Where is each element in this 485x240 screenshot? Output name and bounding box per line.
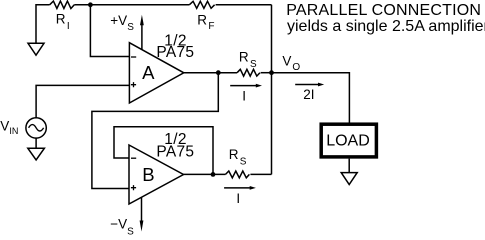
resistor RS lower	[226, 171, 250, 178]
op-amp B plus pin	[131, 185, 136, 190]
current arrow 2I line	[295, 84, 319, 86]
wire Vo vertical bus	[271, 5, 273, 175]
resistor RF	[189, 1, 214, 8]
op-amp A plus pin	[131, 82, 136, 87]
resistor RS upper	[237, 69, 260, 76]
svg-text:PA75: PA75	[156, 44, 194, 61]
supply +VS arrow line	[141, 25, 143, 50]
svg-text:I: I	[236, 191, 240, 206]
ground G3 below LOAD	[341, 173, 357, 185]
wire RS lower to Vo vertical	[250, 173, 271, 175]
op-amp B triangle	[129, 145, 184, 204]
svg-text:PARALLEL CONNECTION: PARALLEL CONNECTION	[286, 2, 481, 19]
current arrow I upper line	[230, 85, 257, 87]
wire node1 down to A inverting input	[90, 5, 129, 57]
junction B output node	[211, 172, 216, 177]
svg-text:B: B	[142, 164, 154, 185]
wire A output down-left to B plus input	[92, 73, 218, 189]
svg-text:PA75: PA75	[156, 143, 194, 160]
svg-text:A: A	[142, 62, 155, 83]
wire RI to RF	[74, 4, 189, 6]
supply -VS arrowhead	[140, 221, 144, 232]
current arrow I lower head	[250, 186, 256, 190]
op-amp A triangle	[129, 43, 183, 103]
wire RF to Vo vertical	[216, 4, 272, 6]
wire B output to RS lower	[184, 173, 226, 175]
svg-text:I: I	[242, 88, 246, 103]
wire Vo node to LOAD	[272, 73, 350, 125]
resistor RI	[50, 1, 75, 8]
svg-text:2I: 2I	[303, 87, 314, 102]
op-amp B minus pin	[131, 157, 136, 159]
wire VIN to ground	[35, 138, 37, 148]
current arrow I upper head	[256, 84, 262, 88]
wire B feedback loop output to inverting input	[114, 127, 213, 175]
wire VIN to A non-inverting input	[36, 85, 129, 117]
wire RS upper to Vo node	[261, 72, 272, 74]
svg-text:LOAD: LOAD	[326, 133, 370, 150]
wire A output to RS upper	[184, 72, 237, 74]
supply +VS arrowhead	[140, 15, 144, 25]
current arrow I lower line	[224, 187, 251, 189]
ground G2 below VIN	[28, 148, 45, 160]
source VIN circle	[26, 118, 46, 138]
wire top-left to RI	[36, 5, 50, 44]
source VIN sine	[29, 125, 44, 131]
load box	[321, 124, 376, 157]
ground G1 top-left	[28, 43, 44, 55]
wire LOAD to ground	[348, 159, 350, 173]
junction node1 RI-RF	[88, 2, 93, 7]
op-amp A minus pin	[131, 56, 136, 58]
current arrow 2I head	[318, 83, 324, 87]
junction Vo node	[269, 70, 274, 75]
svg-text:yields a single 2.5A amplifier: yields a single 2.5A amplifier	[287, 18, 485, 35]
junction A output node	[216, 70, 221, 75]
supply -VS arrow line	[141, 198, 143, 223]
